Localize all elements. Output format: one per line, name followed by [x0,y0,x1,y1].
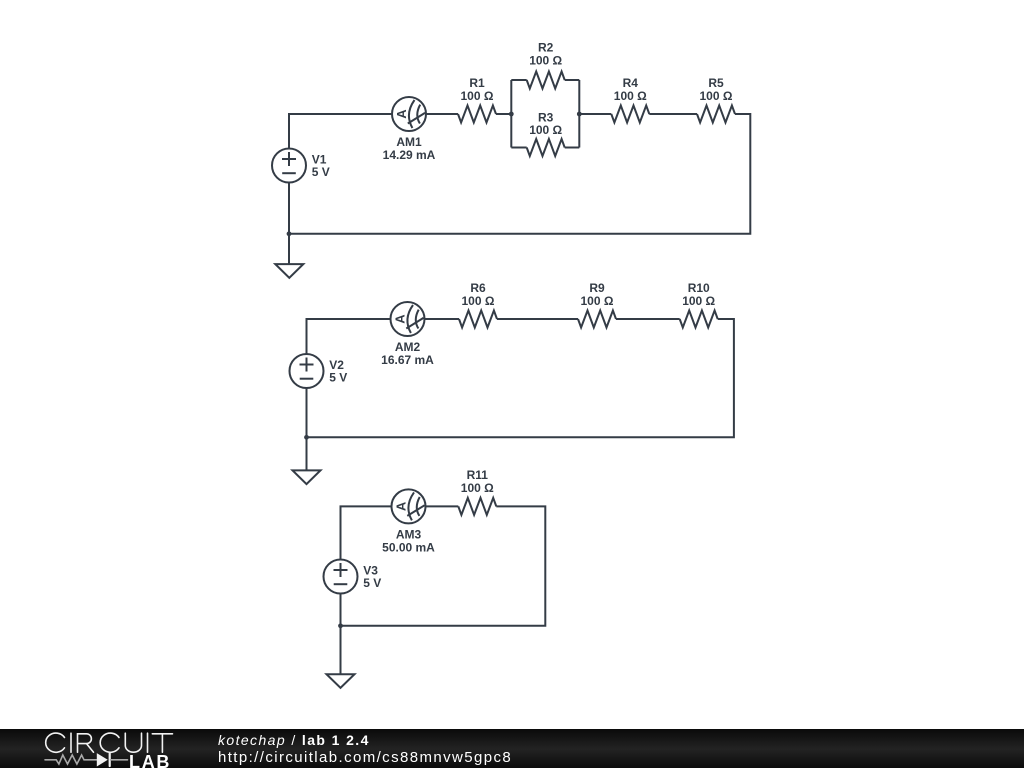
resistor R3 [527,139,565,156]
svg-text:100 Ω: 100 Ω [461,481,494,495]
wire right side down and bottom return [341,506,546,625]
wire R2 branch right lead [565,79,580,81]
wire AM3 to R11 [426,505,459,507]
wire V3 bottom to ground [340,594,342,675]
wire AM1 to R1 [426,113,458,115]
junction dot at V3 bottom node [338,623,343,628]
wire right rail of parallel pair [578,80,580,148]
resistor R10 [680,311,718,328]
svg-text:AM1: AM1 [396,135,422,149]
ground symbol circuit 3 [327,674,355,688]
wire R3 branch left lead [511,147,526,149]
svg-text:100 Ω: 100 Ω [700,89,733,103]
logo word CIRCUIT [46,733,173,752]
wire R9 to R10 [616,318,680,320]
logo resistor-diode motif [45,754,128,766]
resistor R4 [611,106,649,123]
svg-text:50.00 mA: 50.00 mA [382,540,435,554]
svg-text:100 Ω: 100 Ω [461,89,494,103]
svg-text:R11: R11 [467,468,489,482]
resistor R5 [697,106,735,123]
resistor R11 [458,498,496,515]
wire top-left V3 to AM3 [341,506,392,559]
svg-text:A: A [393,314,408,324]
svg-text:100 Ω: 100 Ω [529,54,562,68]
ground symbol circuit 1 [275,264,303,278]
voltage source V1 [272,149,306,183]
wire R3 branch right lead [565,147,580,149]
svg-text:100 Ω: 100 Ω [581,294,614,308]
footer bar [0,729,1024,768]
wire V1 bottom to ground [288,183,290,265]
svg-text:R9: R9 [589,281,605,295]
svg-text:5 V: 5 V [363,576,381,590]
wire top-left V1 to AM1 [289,114,392,149]
svg-text:A: A [394,501,409,511]
svg-text:R6: R6 [470,281,486,295]
svg-text:5 V: 5 V [329,371,347,385]
svg-text:AM2: AM2 [395,340,421,354]
resistor R2 [527,72,565,89]
voltage source V3 [324,560,358,594]
wire AM2 to R6 [425,318,460,320]
resistor R9 [578,311,616,328]
wire top-left V2 to AM2 [307,319,391,354]
svg-text:R2: R2 [538,41,554,55]
footer title line [218,732,370,748]
voltage source V2 [290,354,324,388]
svg-text:R5: R5 [708,76,724,90]
ammeter AM3 [392,489,426,523]
wire node B to R4 [579,113,611,115]
svg-text:100 Ω: 100 Ω [614,89,647,103]
junction dot at V2 bottom node [304,435,309,440]
svg-text:R1: R1 [469,76,485,90]
wire R6 to R9 [497,318,578,320]
resistor R1 [458,106,496,123]
svg-text:100 Ω: 100 Ω [462,294,495,308]
CircuitLab logo [0,729,190,768]
svg-text:R4: R4 [623,76,639,90]
wire right side down and bottom return [289,114,750,234]
ammeter AM1 [392,97,426,131]
svg-text:100 Ω: 100 Ω [682,294,715,308]
svg-text:5 V: 5 V [312,165,330,179]
ground symbol circuit 2 [293,470,321,484]
wire V2 bottom to ground [306,388,308,470]
svg-text:16.67 mA: 16.67 mA [381,353,434,367]
wire left rail of parallel pair [510,80,512,148]
wire R4 to R5 [649,113,697,115]
wire R1 to node A [496,113,511,115]
svg-text:A: A [394,109,409,119]
svg-text:14.29 mA: 14.29 mA [383,148,436,162]
ammeter AM2 [391,302,425,336]
wire right side down and bottom return [307,319,734,437]
svg-text:AM3: AM3 [396,527,422,541]
wire R2 branch left lead [511,79,526,81]
svg-text:100 Ω: 100 Ω [529,123,562,137]
node A junction dot [509,112,514,117]
resistor R6 [459,311,497,328]
svg-text:R10: R10 [688,281,710,295]
junction dot at V1 bottom node [287,231,292,236]
node B junction dot [577,112,582,117]
footer url line [218,749,512,766]
logo word LAB [129,752,171,768]
